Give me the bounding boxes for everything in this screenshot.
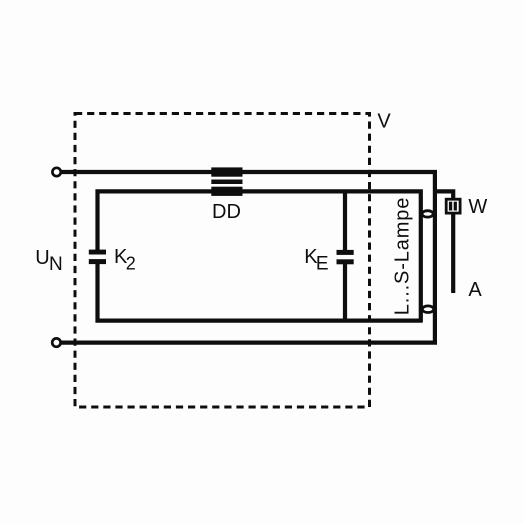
svg-text:E: E: [316, 253, 329, 274]
svg-text:2: 2: [126, 253, 136, 273]
svg-text:N: N: [49, 254, 63, 275]
svg-text:U: U: [35, 247, 49, 269]
svg-text:V: V: [377, 111, 391, 133]
svg-text:L...S-Lampe: L...S-Lampe: [392, 197, 414, 315]
svg-text:W: W: [468, 196, 487, 218]
svg-text:DD: DD: [212, 201, 241, 223]
svg-text:A: A: [468, 279, 482, 301]
